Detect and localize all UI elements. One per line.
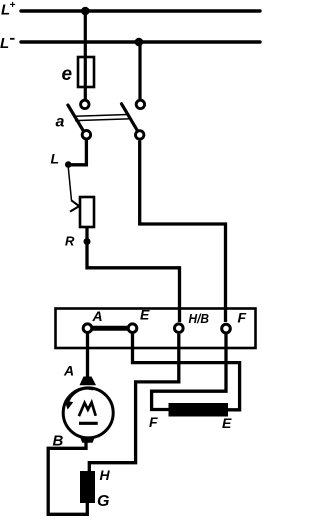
junction on L+ (81, 7, 90, 16)
svg-text:E: E (222, 415, 232, 431)
wire L+ bus (21, 9, 260, 12)
wire L+ branch down to switch (84, 11, 87, 99)
motor rotation arrow (65, 389, 94, 410)
fuse e label (62, 64, 73, 85)
svg-text:a: a (56, 114, 65, 131)
switch a left blade (68, 105, 84, 132)
svg-text:A: A (92, 308, 103, 324)
wire from left pole to node L (69, 140, 87, 165)
switch a left top contact (81, 100, 89, 108)
wire terminal E to field E (133, 334, 240, 410)
motor brush label B (53, 433, 64, 450)
wire L- branch down to switch (138, 42, 141, 99)
switch a right blade (122, 104, 138, 132)
terminal E label (140, 307, 150, 323)
node H label (100, 467, 111, 483)
node R label (65, 234, 75, 249)
wire terminal F to field F (152, 334, 226, 410)
svg-text:e: e (62, 64, 73, 85)
fuse e (78, 57, 94, 87)
terminal E (128, 324, 137, 333)
svg-text:G: G (97, 493, 109, 510)
svg-text:H: H (100, 467, 111, 483)
field winding F-E body (169, 403, 229, 417)
node L- label (0, 35, 15, 52)
node G label (97, 493, 109, 510)
svg-text:F: F (149, 414, 158, 430)
motor armature label A (63, 363, 74, 379)
motor M1 (63, 377, 113, 443)
wire element H to terminal H/B (89, 334, 179, 472)
motor M letter (79, 402, 98, 423)
resistor R body (80, 197, 94, 227)
terminal H/B (175, 324, 184, 333)
terminal F (222, 324, 231, 333)
svg-text:A: A (63, 363, 74, 379)
node L label (51, 151, 60, 167)
node L terminal dot (65, 161, 72, 168)
wiper arm of starter (68, 168, 79, 212)
svg-text:R: R (65, 234, 75, 249)
terminal block (56, 309, 256, 349)
node R terminal dot (84, 238, 91, 245)
switch a right top contact (136, 100, 144, 108)
wire from resistor to terminal H/B (87, 227, 180, 322)
switch a coupling bar (75, 114, 130, 120)
field E label (222, 415, 232, 431)
svg-text:F: F (238, 310, 247, 326)
svg-text:L: L (0, 35, 9, 52)
junction on L- (135, 38, 144, 47)
series winding H-G body (80, 471, 95, 503)
svg-text:L: L (51, 151, 60, 167)
wire motor B to element G (48, 442, 87, 514)
wire terminal A to motor (86, 334, 89, 378)
svg-text:+: + (10, 0, 16, 11)
switch a label (56, 114, 65, 131)
switch a left bottom contact (82, 131, 90, 139)
svg-text:H/B: H/B (189, 311, 210, 326)
node L+ label (1, 0, 16, 19)
svg-text:E: E (140, 307, 150, 323)
wire L- bus (21, 40, 260, 43)
terminal A label (92, 308, 103, 324)
terminal F label (238, 310, 247, 326)
jumper bar A-E (91, 326, 129, 331)
field F label (149, 414, 158, 430)
wire from right pole to terminal F (140, 141, 226, 323)
terminal H/B label (189, 311, 210, 326)
terminal A (83, 324, 92, 333)
switch a right bottom contact (136, 131, 144, 139)
